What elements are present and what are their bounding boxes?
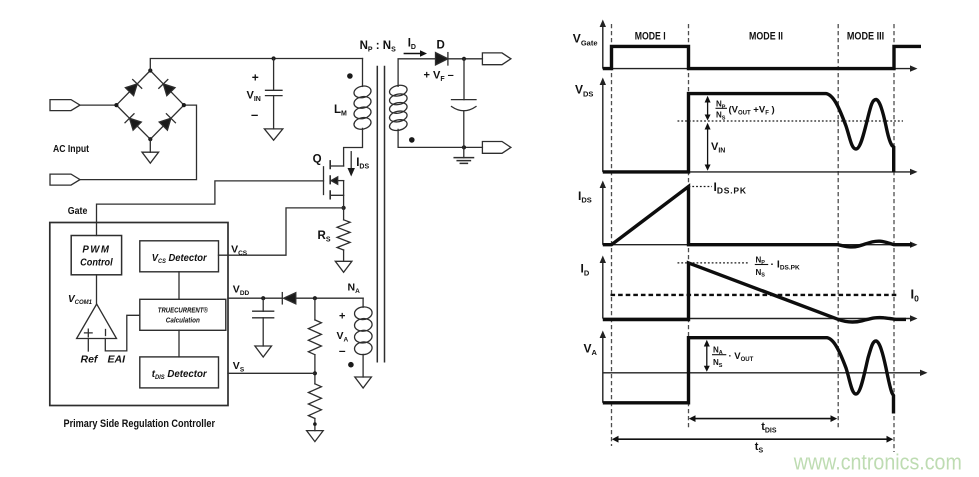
dotted ID peak leader	[678, 262, 749, 264]
wire LM bottom to MOSFET drain	[344, 128, 363, 166]
node dot VDD cap	[261, 296, 265, 300]
mode boundary dashed line 3	[837, 24, 839, 428]
svg-text:Ref: Ref	[81, 354, 99, 366]
ground below VIN cap	[264, 129, 282, 140]
VDD capacitor	[253, 298, 274, 346]
tS dimension arrow	[612, 436, 893, 443]
MOSFET source node dot	[342, 206, 346, 210]
IDS axis arrowheads	[600, 181, 918, 248]
VCS sense wire	[219, 208, 344, 255]
ID waveform	[603, 263, 906, 322]
tDIS Detector block	[140, 357, 219, 388]
svg-text:–: –	[251, 107, 258, 122]
fraction NA/NS on VA	[712, 345, 754, 369]
bridge diode D4 (bottom-right arm)	[159, 114, 175, 130]
tDIS dimension arrow	[689, 415, 837, 422]
MOSFET Q1 symbol	[324, 161, 344, 199]
resistor R1 divider upper	[308, 320, 321, 355]
VGate axis	[603, 26, 911, 69]
svg-text:Calculation: Calculation	[166, 318, 200, 325]
wire J2 to bridge right vertex	[80, 105, 197, 180]
ID axis	[603, 262, 911, 319]
wire bridge top to VIN rail	[150, 59, 362, 71]
VA axis arrowheads	[600, 331, 928, 377]
primary winding LM loops	[353, 85, 372, 131]
NP/NS(VOUT+VF) dimension arrow	[705, 96, 711, 121]
svg-text:Primary Side Regulation Contro: Primary Side Regulation Controller	[64, 418, 216, 430]
svg-text:TRUECURRENT®: TRUECURRENT®	[158, 307, 209, 315]
mode boundary dashed line 4	[893, 24, 895, 452]
wire secondary bottom rail	[398, 129, 482, 147]
ground below NA	[355, 377, 372, 388]
mode boundary dashed line 2	[688, 24, 690, 428]
svg-text:NP : NS: NP : NS	[360, 40, 397, 54]
node dots on bridge vertices	[114, 68, 186, 141]
ground below divider	[307, 431, 324, 442]
svg-text:MODE II: MODE II	[749, 30, 783, 42]
VDD wire with diode	[228, 297, 363, 299]
wire Rs to ground	[343, 250, 345, 261]
output capacitor	[452, 59, 477, 148]
capacitor VIN lead top	[273, 59, 275, 91]
node dot at VIN cap	[272, 56, 276, 60]
VA waveform	[603, 338, 894, 414]
VIN dimension arrow	[705, 123, 711, 171]
NA winding wire top	[362, 298, 364, 307]
text PWM Control	[80, 245, 113, 269]
VDS axis	[603, 84, 911, 172]
node dot VS	[313, 371, 317, 375]
wire diode to output connector	[448, 58, 483, 60]
fraction NP/NS on VDS	[716, 100, 728, 122]
PWM Control block	[71, 236, 121, 275]
svg-text:Control: Control	[80, 258, 113, 269]
VDD diode D5	[282, 293, 296, 304]
wire source to Rs	[343, 195, 345, 220]
transformer primary wire top	[362, 59, 364, 87]
dotted IDS.PK leader	[689, 186, 713, 188]
transformer secondary wire top	[398, 59, 435, 87]
node dot divider top	[313, 296, 317, 300]
ground below bridge	[142, 152, 159, 163]
VA axis	[603, 337, 921, 403]
svg-text:Gate: Gate	[68, 206, 88, 217]
wire TRUECURRENT to tDIS detector	[178, 330, 180, 357]
dashed I0 average level	[611, 294, 899, 296]
wire bridge bottom to ground	[149, 139, 151, 152]
ID arrow label (schematic, top)	[404, 50, 427, 57]
capacitor VIN plates	[266, 90, 283, 95]
svg-text:+: +	[252, 71, 259, 85]
op-amp U1 error amplifier	[77, 304, 117, 339]
svg-text:D: D	[437, 40, 445, 52]
wire J1 to bridge	[80, 104, 116, 106]
node dot above ground	[313, 422, 317, 426]
secondary winding NS loops	[389, 84, 409, 132]
primary phase dot	[347, 73, 353, 79]
VCS Detector block	[140, 241, 219, 272]
TRUECURRENT Calculation block	[140, 299, 226, 330]
mode boundary dashed line 1	[611, 24, 613, 446]
capacitor VIN lead bottom	[273, 96, 275, 129]
wire divider top	[314, 298, 316, 320]
bridge diode D2 (right-top arm)	[159, 80, 175, 96]
svg-text:AC Input: AC Input	[53, 144, 90, 155]
output connector J4 (bottom)	[482, 142, 511, 154]
AC input connector J1 (top)	[50, 100, 80, 111]
node dot output top	[462, 57, 466, 61]
transformer core lines	[377, 67, 384, 362]
IDS current arrow	[348, 152, 355, 177]
AC input connector J2 (bottom)	[50, 174, 80, 185]
svg-text:Q: Q	[313, 153, 322, 165]
svg-text:www.cntronics.com: www.cntronics.com	[793, 449, 962, 474]
output diode D	[436, 53, 448, 65]
resistor R2 divider lower	[308, 384, 321, 419]
svg-text:MODE III: MODE III	[847, 30, 884, 42]
wire R2 to ground	[314, 419, 316, 431]
ground below Rs	[335, 261, 352, 272]
earth ground at output	[454, 147, 473, 163]
NA/NS VOUT dimension arrow	[704, 340, 710, 372]
svg-text:PWM: PWM	[82, 245, 110, 256]
svg-text:EAI: EAI	[108, 354, 127, 366]
EAI wire to TRUECURRENT	[105, 315, 140, 351]
bridge diode D3 (bottom-left arm)	[125, 114, 141, 130]
gate wire from controller	[97, 181, 324, 236]
wire R1 to VS node	[314, 355, 316, 384]
VDS axis arrowheads	[600, 78, 918, 176]
wire op-amp output to PWM control	[96, 275, 98, 304]
node dot output bottom	[462, 145, 466, 149]
VDS waveform	[603, 94, 894, 172]
VS wire	[228, 372, 315, 374]
secondary phase dot	[409, 137, 415, 143]
svg-text:MODE I: MODE I	[635, 30, 666, 42]
VGate axis arrowheads	[600, 20, 918, 72]
IDS waveform	[603, 187, 912, 247]
ground below VDD cap	[255, 346, 272, 357]
output connector J3 (top)	[482, 53, 511, 65]
ID axis arrowheads	[600, 256, 918, 322]
Ref input stub	[87, 339, 89, 352]
resistor RS	[337, 220, 350, 250]
svg-text:+ VF –: + VF –	[424, 70, 454, 84]
bridge diode D1 (left-top arm)	[125, 80, 141, 96]
svg-text:–: –	[339, 344, 346, 358]
controller outer box	[50, 223, 228, 406]
VGate waveform	[603, 46, 921, 68]
fraction NP/NS on ID	[755, 255, 800, 278]
NA phase dot	[348, 362, 354, 368]
wire NA to ground	[362, 354, 364, 377]
text TRUECURRENT Calculation	[158, 307, 209, 325]
IDS axis	[603, 187, 911, 245]
svg-text:+: +	[339, 311, 345, 323]
auxiliary winding NA loops	[354, 306, 373, 355]
bridge rectifier BR1 outline	[116, 71, 183, 140]
dotted reflected-voltage level on VDS	[678, 120, 904, 122]
wire VCS detector to TRUECURRENT	[178, 272, 180, 300]
